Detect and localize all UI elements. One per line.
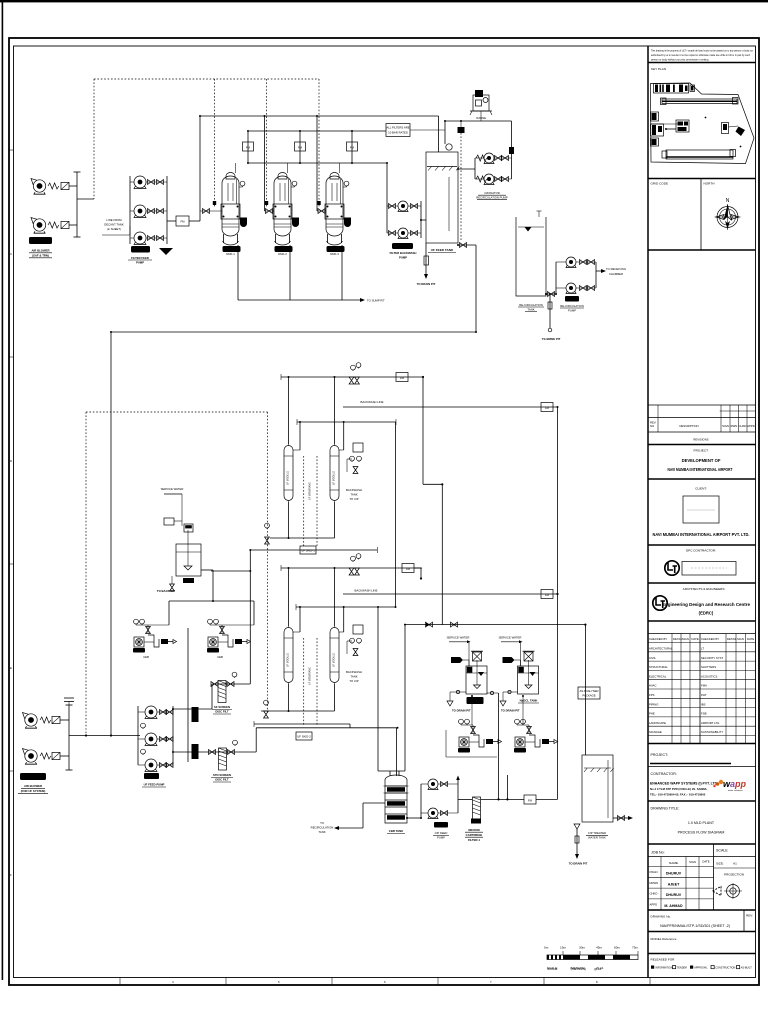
svg-text:INFORMATION: INFORMATION [655, 967, 673, 970]
svg-text:PROJECT:: PROJECT: [651, 753, 669, 757]
svg-text:UF SKID-2: UF SKID-2 [297, 735, 311, 739]
svg-text:SIGNAGE: SIGNAGE [649, 730, 662, 734]
svg-text:10 BAR RATED: 10 BAR RATED [388, 131, 408, 135]
svg-text:TANK: TANK [350, 493, 357, 497]
svg-text:DRAWING No.: DRAWING No. [651, 915, 672, 919]
svg-text:TENDER: TENDER [677, 967, 687, 970]
svg-text:FM: FM [400, 376, 405, 380]
svg-text:water solutions: water solutions [728, 789, 743, 792]
svg-text:CHECKED BY: CHECKED BY [649, 637, 667, 641]
svg-text:DMF-3: DMF-3 [330, 252, 339, 256]
svg-text:60m: 60m [614, 946, 620, 950]
svg-text:CHKD: CHKD [739, 424, 747, 428]
svg-text:DISC FILT: DISC FILT [215, 710, 228, 714]
svg-text:C: C [10, 252, 12, 256]
svg-text:UF SKID-1: UF SKID-1 [301, 549, 315, 553]
svg-text:DATE: DATE [702, 860, 709, 864]
svg-text:CEB: CEB [143, 655, 149, 659]
svg-text:(EDRC): (EDRC) [699, 611, 714, 616]
svg-text:PUMP: PUMP [437, 836, 445, 840]
svg-text:0m: 0m [544, 946, 549, 950]
svg-text:TO DRAIN PIT: TO DRAIN PIT [569, 862, 588, 866]
svg-text:HVAC: HVAC [649, 684, 657, 688]
svg-text:D: D [10, 459, 12, 463]
svg-text:TO CIP: TO CIP [349, 497, 358, 501]
svg-text:CIVIL: CIVIL [649, 656, 656, 660]
svg-text:SCALE:: SCALE: [547, 966, 558, 970]
svg-text:REV:: REV: [746, 914, 753, 918]
svg-text:DHURUV: DHURUV [666, 893, 682, 897]
svg-text:TO CIP: TO CIP [349, 679, 358, 683]
svg-text:DEVELOPMENT OF: DEVELOPMENT OF [682, 458, 721, 463]
svg-text:AJEET: AJEET [668, 882, 680, 886]
svg-text:1.0 MLD PLANT: 1.0 MLD PLANT [688, 821, 715, 825]
svg-text:DETAIL: DETAIL [727, 637, 737, 641]
svg-text:FM: FM [545, 593, 550, 597]
svg-text:WATER TANK: WATER TANK [588, 836, 606, 840]
svg-text:05-AB-03&04: 05-AB-03&04 [25, 775, 42, 779]
svg-text:DHURUV: DHURUV [666, 872, 682, 876]
svg-text:IBS: IBS [701, 702, 706, 706]
svg-text:DRWN: DRWN [650, 881, 659, 885]
svg-text:SERVICE WATER: SERVICE WATER [499, 636, 522, 640]
svg-text:FILTER FEED: FILTER FEED [131, 256, 149, 260]
svg-text:BACKWASH: BACKWASH [346, 670, 362, 674]
svg-text:DMF-1: DMF-1 [226, 252, 235, 256]
svg-text:FPS: FPS [649, 693, 655, 697]
svg-text:DATE: DATE [747, 637, 754, 641]
svg-text:This drawing is the property o: This drawing is the property of L&T / um… [651, 49, 753, 53]
svg-text:DSGN: DSGN [650, 870, 658, 874]
svg-text:CHECKED BY: CHECKED BY [701, 637, 719, 641]
svg-text:SIGN: SIGN [682, 637, 689, 641]
svg-text:RE-CIRCULATION: RE-CIRCULATION [560, 304, 584, 308]
svg-text:E: E [10, 666, 12, 670]
svg-text:45m: 45m [596, 946, 602, 950]
svg-text:(in SHEET): (in SHEET) [107, 227, 121, 231]
svg-text:75m: 75m [632, 946, 638, 950]
svg-text:FM: FM [350, 146, 355, 150]
svg-text:N: N [726, 198, 730, 204]
svg-text:APPROVAL: APPROVAL [694, 967, 708, 970]
svg-text:SHUTTERS: SHUTTERS [701, 665, 716, 669]
svg-text:A1: A1 [733, 862, 737, 866]
svg-text:PIPING: PIPING [649, 702, 658, 706]
svg-text:RECIRCULATION: RECIRCULATION [311, 826, 334, 830]
svg-text:ARCHITECTS & ENGINEERS:: ARCHITECTS & ENGINEERS: [683, 587, 726, 591]
svg-text:AIR BLOWER: AIR BLOWER [31, 249, 49, 253]
svg-text:SIGN: SIGN [722, 424, 729, 428]
svg-text:TO RECEIVING: TO RECEIVING [606, 267, 626, 271]
svg-text:CLIENT:: CLIENT: [695, 487, 707, 491]
svg-text:KEY PLAN: KEY PLAN [651, 67, 666, 71]
svg-text:FILTER-1: FILTER-1 [468, 838, 481, 842]
svg-text:CIP FEED: CIP FEED [435, 831, 448, 835]
svg-text:AIR BLOWER: AIR BLOWER [24, 784, 42, 788]
svg-text:authorised by us to receive it: authorised by us to receive it nor be co… [651, 53, 750, 57]
svg-text:30m: 30m [579, 946, 585, 950]
svg-text:PROJECT:: PROJECT: [694, 449, 709, 453]
svg-text:GRID CODE: GRID CODE [651, 182, 669, 186]
svg-text:NAME: NAME [669, 861, 678, 865]
svg-text:05-AB-01&02: 05-AB-01&02 [32, 239, 49, 243]
svg-text:ELECTRICAL: ELECTRICAL [649, 674, 667, 678]
svg-text:ENHANCED WAPP SYSTEMS (I) PVT.: ENHANCED WAPP SYSTEMS (I) PVT. LTD. [650, 782, 718, 786]
svg-text:SCALE: SCALE [716, 849, 728, 853]
svg-text:BACKWASH: BACKWASH [346, 488, 362, 492]
svg-text:F: F [10, 873, 12, 877]
svg-text:MICRON: MICRON [468, 828, 479, 832]
svg-text:TO BACK CIP: TO BACK CIP [157, 589, 175, 593]
svg-text:FM: FM [298, 146, 303, 150]
svg-text:RWN: RWN [731, 424, 738, 428]
svg-text:UF FEED PUMP: UF FEED PUMP [144, 783, 165, 787]
svg-text:HCL TANK: HCL TANK [468, 699, 482, 703]
svg-text:CHAMBER: CHAMBER [609, 272, 623, 276]
svg-text:MODEL Reference: MODEL Reference [651, 937, 677, 941]
svg-text:FM: FM [180, 220, 185, 224]
svg-text:PHT: PHT [701, 693, 707, 697]
svg-text:FM: FM [528, 799, 533, 803]
svg-text:NORTH: NORTH [704, 182, 715, 186]
svg-text:AS ANALYSER: AS ANALYSER [579, 689, 598, 693]
svg-text:TANK: TANK [350, 675, 357, 679]
svg-text:TO DRAIN PIT: TO DRAIN PIT [452, 709, 471, 713]
svg-text:M. AHMAD: M. AHMAD [664, 904, 683, 908]
svg-text:SUSTAINABILITY: SUSTAINABILITY [701, 730, 723, 734]
svg-text:@ A1: @ A1 [596, 966, 604, 970]
svg-text:TO SUMP PIT: TO SUMP PIT [367, 299, 385, 303]
svg-text:ARCHITECTURAL: ARCHITECTURAL [649, 647, 673, 651]
svg-text:LINE FROM: LINE FROM [106, 218, 122, 222]
svg-text:7% BRINE PIT: 7% BRINE PIT [542, 337, 561, 341]
svg-text:AIRPORT LTG: AIRPORT LTG [701, 721, 719, 725]
svg-text:DECANT TANK: DECANT TANK [104, 223, 124, 227]
svg-text:UF MEMBRANE: UF MEMBRANE [309, 482, 312, 500]
svg-text:15m: 15m [560, 946, 566, 950]
svg-text:TANK: TANK [527, 308, 534, 312]
svg-text:person or body without our pri: person or body without our prior permiss… [651, 58, 709, 62]
svg-text:SERVICE WATER: SERVICE WATER [161, 487, 184, 491]
svg-text:CHKD: CHKD [650, 892, 658, 896]
svg-text:STN SCREEN: STN SCREEN [213, 773, 231, 777]
svg-text:CARTRIDGE: CARTRIDGE [466, 833, 483, 837]
svg-text:CBR TANK: CBR TANK [389, 829, 403, 833]
svg-text:TEL:- 010-4710604-05, FAX :- 0: TEL:- 010-4710604-05, FAX :- 010-4710600 [650, 793, 706, 797]
svg-text:DRAWING TITLE:: DRAWING TITLE: [651, 807, 680, 811]
svg-text:PUMP: PUMP [568, 309, 576, 313]
svg-text:STRUCTURAL: STRUCTURAL [649, 665, 668, 669]
svg-text:RECIRCULATION PUMP: RECIRCULATION PUMP [476, 196, 508, 200]
svg-text:LT: LT [701, 647, 704, 651]
svg-text:(SAF & TRN): (SAF & TRN) [32, 254, 49, 258]
svg-text:DISC FILT: DISC FILT [215, 778, 228, 782]
svg-text:ALL FILTERS ARE: ALL FILTERS ARE [386, 126, 409, 130]
svg-text:NAVI MUMBAI INTERNATIONAL AIRP: NAVI MUMBAI INTERNATIONAL AIRPORT PVT. L… [653, 532, 750, 537]
svg-text:NaOCL TANK: NaOCL TANK [520, 699, 538, 703]
svg-text:NIA/PFR/NMIAL/STP-1/SD/301 (SH: NIA/PFR/NMIAL/STP-1/SD/301 (SHEET -2) [660, 924, 730, 928]
svg-text:APPD: APPD [650, 902, 658, 906]
svg-text:PROCESS FLOW DIAGRAM: PROCESS FLOW DIAGRAM [678, 831, 725, 835]
svg-text:SIGN: SIGN [689, 860, 696, 864]
svg-text:TO DRAIN PIT: TO DRAIN PIT [417, 282, 436, 286]
svg-text:UF FEED TANK: UF FEED TANK [431, 248, 454, 252]
svg-text:(FOR UF SYSTEM): (FOR UF SYSTEM) [21, 789, 46, 793]
svg-text:ACOUSTICS: ACOUSTICS [701, 674, 717, 678]
svg-text:DATE: DATE [692, 637, 699, 641]
svg-text:PACKAGE: PACKAGE [582, 694, 595, 698]
svg-text:LANDSCAPE: LANDSCAPE [649, 721, 666, 725]
svg-text:REVISIONS: REVISIONS [693, 438, 708, 442]
svg-text:EPC CONTRACTOR:: EPC CONTRACTOR: [686, 549, 716, 553]
svg-text:FM: FM [406, 567, 411, 571]
svg-text:TO DRAIN PIT: TO DRAIN PIT [501, 709, 520, 713]
svg-text:CONTRACTOR:: CONTRACTOR: [651, 772, 677, 776]
svg-text:AS-BUILT: AS-BUILT [741, 967, 753, 970]
svg-text:CIP TREATED: CIP TREATED [588, 831, 606, 835]
svg-text:wapp: wapp [723, 779, 747, 789]
svg-text:FILTER BACKWASH: FILTER BACKWASH [390, 251, 417, 255]
svg-text:BACKWASH LINE: BACKWASH LINE [355, 589, 378, 593]
svg-text:PROJECTION: PROJECTION [724, 873, 744, 877]
svg-text:BACKWASH LINE: BACKWASH LINE [361, 400, 384, 404]
svg-text:FSB: FSB [701, 712, 707, 716]
svg-text:No.4 3 TLM STP PVR (CON-LE) JS: No.4 3 TLM STP PVR (CON-LE) JS. SANNA. [650, 787, 708, 791]
svg-text:NAVI MUMBAI INTERNATIONAL AIRP: NAVI MUMBAI INTERNATIONAL AIRPORT [668, 467, 733, 472]
svg-text:FM: FM [545, 406, 550, 410]
svg-text:APPD: APPD [747, 424, 755, 428]
svg-text:DESCRIPTION: DESCRIPTION [679, 424, 698, 428]
svg-text:(METERS): (METERS) [570, 966, 585, 970]
svg-text:SF SCREEN: SF SCREEN [214, 705, 230, 709]
svg-text:SECURITY SYST: SECURITY SYST [701, 656, 723, 660]
svg-text:RELEASED FOR: RELEASED FOR [651, 958, 676, 962]
svg-text:PHE: PHE [649, 712, 655, 716]
svg-text:FMA: FMA [701, 684, 707, 688]
svg-text:FM: FM [246, 146, 251, 150]
svg-text:SIZE:: SIZE: [716, 862, 724, 866]
svg-text:SERVICE WATER: SERVICE WATER [447, 636, 470, 640]
svg-text:PUMP: PUMP [399, 256, 407, 260]
svg-text:DMF-2: DMF-2 [278, 252, 287, 256]
svg-text:TANK: TANK [318, 830, 325, 834]
svg-text:UF MEMBRANE: UF MEMBRANE [309, 667, 312, 685]
svg-text:JOB No:: JOB No: [651, 851, 665, 855]
svg-text:CONSTRUCTION: CONSTRUCTION [715, 967, 735, 970]
svg-text:OZONATOR: OZONATOR [484, 191, 500, 195]
svg-text:PUMP: PUMP [136, 261, 144, 265]
svg-text:RE-CIRCULATION: RE-CIRCULATION [519, 303, 543, 307]
svg-text:CEB: CEB [217, 655, 223, 659]
svg-text:SIGN: SIGN [737, 637, 744, 641]
svg-text:Engineering Design and Researc: Engineering Design and Research Centre [662, 602, 751, 607]
